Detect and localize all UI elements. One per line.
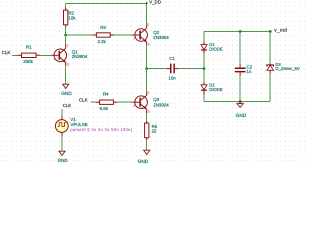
- resistor R1: [18, 45, 41, 65]
- resistor R2: [64, 8, 77, 27]
- svg-text:1: 1: [67, 43, 69, 47]
- svg-text:22: 22: [152, 129, 157, 134]
- svg-text:1: 1: [148, 22, 150, 26]
- wire D1 bottom to node: [203, 54, 205, 69]
- capacitor C2: [235, 64, 253, 75]
- wire Q1 emitter down: [65, 66, 67, 84]
- svg-text:V_DD: V_DD: [149, 0, 161, 4]
- svg-text:CLK: CLK: [2, 50, 11, 55]
- wire C2 bottom: [239, 76, 241, 102]
- svg-text:10k: 10k: [68, 15, 76, 20]
- wire D3 top: [269, 32, 271, 64]
- wire R4 to Q3 base: [117, 101, 132, 103]
- svg-text:CLK: CLK: [79, 97, 88, 102]
- wire D1 top: [203, 32, 205, 42]
- svg-text:DIODE: DIODE: [209, 46, 222, 51]
- svg-text:pulse(0 5 2n 2n 2n 50n 100n): pulse(0 5 2n 2n 2n 50n 100n): [70, 127, 132, 132]
- resistor R3: [93, 25, 115, 44]
- wire C1 to diode node: [178, 68, 204, 70]
- diode D2: [201, 81, 223, 94]
- wire Q2 emitter down to mid node: [146, 45, 148, 68]
- wire mid node to C1: [147, 68, 167, 70]
- wire node to D2: [203, 69, 205, 82]
- svg-text:3: 3: [148, 42, 150, 46]
- node junction C2 top: [239, 30, 242, 33]
- power symbol V_DD: [146, 2, 148, 4]
- transistor Q1 2N3904: [52, 43, 88, 66]
- wire top rail V_DD: [66, 4, 147, 24]
- wire D3 bottom: [269, 74, 271, 102]
- svg-text:1: 1: [148, 90, 150, 94]
- node junction v_out corner: [269, 30, 272, 33]
- svg-text:C1: C1: [169, 56, 175, 61]
- diode D1: [201, 41, 223, 54]
- capacitor C1: [167, 56, 179, 81]
- wire R2 top: [65, 4, 67, 11]
- wire Q1 collector to junction: [65, 34, 67, 44]
- wire bottom rail: [204, 101, 270, 103]
- svg-text:2N3904: 2N3904: [72, 54, 88, 59]
- wire junction to R3: [66, 34, 93, 36]
- resistor R5: [145, 121, 158, 140]
- wire Q3 collector up to mid node: [146, 69, 148, 92]
- svg-text:V1: V1: [70, 117, 76, 122]
- wire R3 to Q2 base: [114, 34, 132, 36]
- svg-text:2: 2: [54, 57, 56, 61]
- wire Q3 emitter to R5: [146, 113, 148, 123]
- wire V1 to GND: [61, 136, 63, 151]
- svg-text:v_out: v_out: [274, 28, 287, 34]
- wire D2 bottom to bottom rail: [203, 94, 205, 102]
- svg-text:2N3904: 2N3904: [153, 102, 169, 107]
- node junction R2/R3/Q1: [64, 34, 67, 37]
- svg-text:GND: GND: [236, 113, 247, 119]
- resistor R4: [96, 91, 118, 111]
- svg-text:3: 3: [148, 110, 150, 114]
- transistor Q3 2N3904: [133, 90, 170, 113]
- transistor Q2 2N3904: [133, 22, 170, 46]
- svg-text:2N3904: 2N3904: [153, 35, 169, 40]
- wire R5 to GND: [146, 140, 148, 150]
- svg-text:2.2k: 2.2k: [98, 39, 107, 44]
- wire CLK to R4: [90, 101, 95, 103]
- svg-text:CLK: CLK: [63, 103, 72, 108]
- svg-text:GND: GND: [138, 159, 149, 164]
- ground GND under R5: [138, 150, 150, 165]
- svg-text:GND: GND: [58, 158, 69, 163]
- wire C2 top: [239, 32, 241, 65]
- node junction C1/D1/D2: [203, 67, 206, 70]
- ground GND under Q1: [61, 84, 72, 97]
- svg-text:2: 2: [133, 36, 135, 40]
- wire CLK to R1: [12, 54, 18, 56]
- svg-text:2: 2: [133, 104, 135, 108]
- svg-text:DIODE: DIODE: [209, 87, 222, 92]
- wire R1 to Q1 base: [40, 54, 51, 56]
- wire R2 bottom to junction: [65, 27, 67, 35]
- ground GND bottom rail: [236, 104, 247, 119]
- svg-text:330k: 330k: [23, 59, 33, 64]
- wire top rail right: [204, 31, 270, 33]
- svg-text:3: 3: [67, 63, 69, 67]
- svg-text:1n: 1n: [247, 69, 252, 74]
- svg-text:R4: R4: [103, 91, 109, 96]
- svg-text:D_Zener_5V: D_Zener_5V: [275, 66, 299, 71]
- node junction Q2e/C1/Q3c: [145, 67, 148, 70]
- diode D3 zener: [267, 62, 300, 74]
- svg-text:GND: GND: [61, 91, 72, 97]
- wire CLK label to V1: [61, 109, 63, 115]
- svg-text:R1: R1: [26, 45, 32, 50]
- node junction bottom rail GND: [239, 100, 242, 103]
- voltage source V1 VPULSE: [55, 115, 132, 136]
- svg-text:10n: 10n: [168, 76, 176, 81]
- svg-text:6.8k: 6.8k: [100, 106, 109, 111]
- ground GND under V1: [58, 151, 69, 163]
- svg-text:R3: R3: [100, 25, 106, 30]
